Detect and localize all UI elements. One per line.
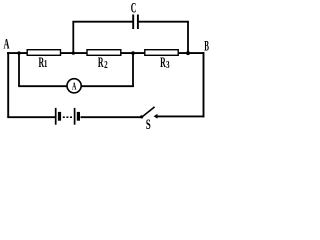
wire: top branch horizontal right of capacitor — [138, 21, 189, 23]
svg-text:2: 2 — [104, 60, 108, 72]
battery cell 2 long plate — [74, 108, 76, 125]
resistor R3 — [145, 50, 178, 56]
node dot right of R3 — [186, 51, 190, 55]
battery cell 2 short thick plate — [77, 112, 80, 121]
wire: ammeter branch right vertical — [132, 53, 134, 87]
capacitor C plates — [132, 15, 134, 30]
ammeter A1 circle — [67, 79, 81, 93]
resistor R1 — [27, 50, 60, 56]
node dot left (junction of ammeter branch) — [17, 51, 20, 54]
switch S left contact dot — [140, 115, 143, 118]
battery cell 1 long plate — [55, 108, 57, 125]
wire: bottom middle segment battery to switch — [81, 116, 141, 118]
wire: top branch left vertical — [72, 22, 74, 53]
wire: ammeter branch left vertical — [18, 52, 20, 86]
resistor R2 — [87, 50, 121, 56]
svg-text:C: C — [131, 0, 137, 16]
node dot between R1 and R2 — [72, 51, 75, 54]
svg-text:A: A — [72, 80, 77, 92]
battery dots — [63, 116, 65, 118]
node dot between R2 and R3 — [131, 51, 135, 55]
switch S blade — [142, 107, 155, 117]
wire: right outer vertical up to B — [203, 52, 205, 117]
wire: left outer vertical from A down — [7, 52, 9, 117]
wire: bottom right segment switch to corner — [157, 115, 205, 117]
svg-text:3: 3 — [166, 60, 170, 72]
wire: ammeter branch horizontal left — [18, 85, 67, 87]
wire: main horizontal row A to B — [7, 52, 204, 54]
switch S right contact arrow — [154, 114, 158, 119]
svg-text:R: R — [160, 53, 166, 71]
wire: top branch right vertical — [187, 22, 189, 54]
wire: bottom left segment to battery — [7, 116, 55, 118]
wire: ammeter branch horizontal right — [81, 85, 134, 87]
battery cell 1 short thick plate — [58, 112, 61, 121]
svg-text:A: A — [4, 35, 10, 52]
svg-text:S: S — [146, 116, 151, 133]
svg-text:1: 1 — [44, 59, 48, 71]
svg-text:R: R — [98, 53, 104, 71]
wire: top branch horizontal left of capacitor — [72, 21, 132, 23]
svg-text:B: B — [204, 38, 209, 55]
